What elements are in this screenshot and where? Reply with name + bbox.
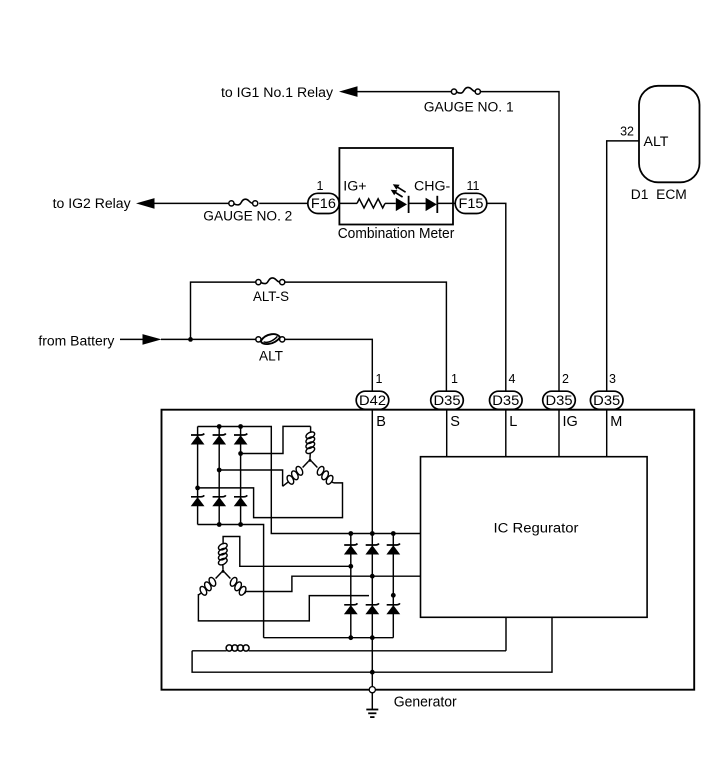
diode mid bridge upper 2 xyxy=(366,544,379,546)
wire from Battery net xyxy=(120,338,143,340)
combination meter box xyxy=(339,148,453,225)
wire F15 to L xyxy=(487,203,506,391)
svg-text:D35: D35 xyxy=(492,393,519,408)
svg-text:to IG1 No.1 Relay: to IG1 No.1 Relay xyxy=(221,85,334,101)
svg-text:M: M xyxy=(610,414,622,430)
stator winding 1 vertical coil xyxy=(310,426,312,432)
wire to IG1 No.1 Relay net xyxy=(357,91,452,93)
svg-text:D35: D35 xyxy=(593,393,620,408)
svg-text:from Battery: from Battery xyxy=(38,333,115,349)
svg-text:L: L xyxy=(509,414,517,430)
junction mid top bus c1 xyxy=(348,531,353,536)
diode CHG- xyxy=(426,198,437,211)
junction bottom bus c2 xyxy=(217,522,222,527)
wire left bridge column 2 xyxy=(218,427,220,525)
stator winding 1 left arm coil xyxy=(303,462,309,468)
LED arrows xyxy=(397,187,406,193)
svg-text:to IG2 Relay: to IG2 Relay xyxy=(53,196,132,212)
svg-text:F15: F15 xyxy=(459,196,484,211)
junction mid tap c3 xyxy=(391,593,396,598)
diode left bridge lower 2 xyxy=(213,495,226,497)
svg-text:B: B xyxy=(376,414,386,430)
svg-text:IG: IG xyxy=(563,414,578,430)
svg-text:CHG-: CHG- xyxy=(414,178,451,194)
junction bottom bus c3 xyxy=(238,522,243,527)
svg-text:D35: D35 xyxy=(546,393,573,408)
diode left bridge lower 3 xyxy=(234,495,247,497)
svg-text:GAUGE NO. 2: GAUGE NO. 2 xyxy=(203,209,292,225)
wire stator2 left arm to mid bridge xyxy=(198,594,369,621)
svg-text:2: 2 xyxy=(562,372,569,386)
wire B main line xyxy=(371,409,373,686)
junction mid bottom bus c2 xyxy=(370,635,375,640)
wire phase tap c2 to stator1 left arm xyxy=(219,470,282,486)
diode mid bridge lower 2 xyxy=(366,603,379,605)
stator winding 1 right arm coil xyxy=(312,462,318,468)
LED diode (charge lamp) xyxy=(396,198,407,211)
fuse GAUGE NO. 1 xyxy=(457,87,475,93)
junction top bus c3 xyxy=(238,424,243,429)
wire IG to regulator xyxy=(558,409,560,456)
svg-text:1: 1 xyxy=(451,372,458,386)
svg-text:D42: D42 xyxy=(359,393,386,408)
junction tap c2 xyxy=(217,468,222,473)
rotor field coil xyxy=(192,650,227,652)
svg-text:GAUGE NO. 1: GAUGE NO. 1 xyxy=(424,99,514,115)
fusible link ALT xyxy=(261,334,280,344)
svg-text:ALT-S: ALT-S xyxy=(253,289,289,305)
junction battery/ALT-S xyxy=(188,337,193,342)
wire L to regulator xyxy=(505,409,507,456)
arrow to IG1 No.1 Relay xyxy=(339,86,358,97)
generator box xyxy=(162,410,695,690)
diode left bridge upper 1 xyxy=(191,434,204,436)
svg-text:F16: F16 xyxy=(311,196,336,211)
junction B field xyxy=(370,670,375,675)
diode left bridge lower 1 xyxy=(191,495,204,497)
diode mid bridge upper 3 xyxy=(387,544,400,546)
arrow from Battery xyxy=(143,334,162,345)
junction tap c1 xyxy=(195,486,200,491)
svg-text:1: 1 xyxy=(376,372,383,386)
wire left bridge bottom bus xyxy=(198,525,264,638)
svg-text:D35: D35 xyxy=(434,393,461,408)
wire ALT-S net xyxy=(191,282,256,339)
junction mid tap c1 xyxy=(348,564,353,569)
connector D35 (M) xyxy=(590,391,623,409)
resistor IG+ xyxy=(357,199,385,208)
ground xyxy=(366,709,378,711)
junction mid tap c2 xyxy=(370,574,375,579)
svg-text:3: 3 xyxy=(609,372,616,386)
connector D35 (IG) xyxy=(543,391,576,409)
stator winding 1 center xyxy=(308,457,313,461)
wire left bridge column 3 xyxy=(240,427,242,525)
svg-text:ALT: ALT xyxy=(644,134,669,150)
diode mid bridge lower 3 xyxy=(387,603,400,605)
connector D35 (L) xyxy=(490,391,523,409)
wire ECM ALT pin 32 xyxy=(607,141,639,392)
wire left bridge column 1 xyxy=(197,427,199,525)
svg-text:ALT: ALT xyxy=(259,349,283,365)
connector D35 (S) xyxy=(431,391,464,409)
svg-text:IG+: IG+ xyxy=(343,178,366,194)
fuse ALT-S xyxy=(261,278,279,284)
wire to IG2 Relay net xyxy=(154,202,229,204)
wire rotor right to regulator xyxy=(505,617,507,651)
diode left bridge upper 3 xyxy=(234,434,247,436)
wire M to regulator xyxy=(606,409,608,456)
svg-text:11: 11 xyxy=(467,179,480,193)
wire mid bridge column 3 xyxy=(392,534,394,638)
svg-text:D1 ECM: D1 ECM xyxy=(631,187,687,203)
wire mid bridge bottom bus xyxy=(264,637,394,639)
stator winding 2 vertical coil xyxy=(217,542,228,551)
wire phase tap c1 to stator1 right arm xyxy=(198,483,343,518)
wire rotor left to regulator B xyxy=(192,617,552,672)
junction mid top bus c2 xyxy=(370,531,375,536)
diode left bridge upper 2 xyxy=(213,434,226,436)
svg-text:Generator: Generator xyxy=(394,695,457,711)
wire stator2 right arm to regulator xyxy=(245,576,420,593)
svg-text:4: 4 xyxy=(509,372,516,386)
stator winding 2 center xyxy=(221,568,226,572)
wire S to regulator xyxy=(446,409,448,456)
svg-text:1: 1 xyxy=(317,179,324,193)
junction mid bottom bus c1 xyxy=(348,635,353,640)
diode mid bridge upper 1 xyxy=(344,544,357,546)
junction top bus c2 xyxy=(217,424,222,429)
svg-text:IC Regurator: IC Regurator xyxy=(494,521,579,537)
junction mid top bus c3 xyxy=(391,531,396,536)
wire meter internal xyxy=(339,202,357,204)
connector D42 xyxy=(356,391,389,409)
ECM block D1 xyxy=(639,86,700,183)
diode mid bridge lower 1 xyxy=(344,603,357,605)
junction tap c3 xyxy=(238,451,243,456)
wire mid bridge column 1 xyxy=(350,534,352,638)
connector bullet at case xyxy=(369,687,375,693)
fuse GAUGE NO. 2 xyxy=(234,199,252,205)
svg-text:Combination Meter: Combination Meter xyxy=(338,226,455,242)
wire left bridge top bus to mid bridge xyxy=(198,427,421,534)
arrow to IG2 Relay xyxy=(136,198,155,209)
stator winding 2 left arm coil xyxy=(216,573,222,579)
IC Regurator box xyxy=(421,457,648,618)
svg-text:32: 32 xyxy=(620,125,634,139)
wire stator2 top arm to mid bridge c1 xyxy=(223,537,351,567)
svg-text:S: S xyxy=(450,414,460,430)
wire phase tap c3 to stator1 top arm xyxy=(241,426,311,453)
stator winding 2 right arm coil xyxy=(225,573,231,579)
